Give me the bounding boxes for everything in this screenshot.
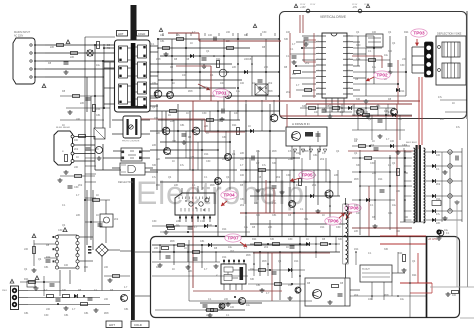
svg-text:100: 100 <box>240 158 245 161</box>
svg-text:L60: L60 <box>84 266 89 269</box>
svg-text:ZD8: ZD8 <box>304 150 309 153</box>
svg-text:DEFLECTION: DEFLECTION <box>118 181 133 184</box>
svg-text:100: 100 <box>240 174 245 177</box>
svg-text:22K: 22K <box>268 226 273 229</box>
svg-text:L60: L60 <box>156 184 161 187</box>
svg-text:22K: 22K <box>260 188 265 191</box>
svg-text:VERTICAL DRIVE: VERTICAL DRIVE <box>320 15 346 19</box>
svg-text:+13V: +13V <box>300 6 306 9</box>
svg-text:1K: 1K <box>96 148 99 151</box>
svg-text:1K: 1K <box>186 112 189 115</box>
svg-text:R24: R24 <box>216 58 221 61</box>
svg-text:1N4: 1N4 <box>378 178 383 181</box>
svg-text:L60: L60 <box>206 314 211 317</box>
svg-text:1K: 1K <box>206 132 209 135</box>
svg-text:TP02: TP02 <box>376 73 388 78</box>
svg-text:22K: 22K <box>154 117 159 120</box>
svg-text:1K: 1K <box>172 82 175 85</box>
svg-text:1K: 1K <box>322 214 325 217</box>
svg-text:R24: R24 <box>232 124 237 127</box>
svg-text:C30: C30 <box>336 226 341 229</box>
svg-text:1K: 1K <box>248 125 251 128</box>
svg-text:1K: 1K <box>172 160 175 163</box>
svg-text:1N4: 1N4 <box>296 152 301 155</box>
svg-text:47u: 47u <box>438 96 443 99</box>
svg-text:1K: 1K <box>452 102 455 105</box>
svg-text:ZD8: ZD8 <box>188 90 193 93</box>
svg-text:Electrohelp: Electrohelp <box>136 175 305 211</box>
svg-text:18: 18 <box>348 59 350 61</box>
svg-text:100: 100 <box>234 112 239 115</box>
svg-text:TP01: TP01 <box>215 91 227 96</box>
svg-text:L60: L60 <box>154 247 159 250</box>
svg-text:L60: L60 <box>402 58 407 61</box>
svg-text:14: 14 <box>348 82 350 84</box>
svg-text:2K2: 2K2 <box>240 204 245 207</box>
svg-text:C30: C30 <box>262 31 267 34</box>
svg-text:100: 100 <box>396 230 401 233</box>
svg-text:100: 100 <box>286 31 291 34</box>
svg-text:HOT: HOT <box>118 32 124 36</box>
svg-text:1N4: 1N4 <box>96 108 101 111</box>
svg-text:L60: L60 <box>104 266 109 269</box>
svg-text:L60: L60 <box>76 118 81 121</box>
svg-text:1N4: 1N4 <box>294 260 299 263</box>
svg-text:L60: L60 <box>292 73 297 76</box>
svg-text:47u: 47u <box>180 164 185 167</box>
svg-text:HOT: HOT <box>109 323 115 327</box>
svg-text:19: 19 <box>348 53 350 55</box>
svg-text:1N4: 1N4 <box>222 228 227 231</box>
svg-text:C30: C30 <box>44 314 49 317</box>
svg-text:22K: 22K <box>354 230 359 233</box>
svg-text:100: 100 <box>384 110 389 113</box>
svg-text:100: 100 <box>220 82 225 85</box>
svg-text:C81: C81 <box>388 212 393 215</box>
svg-text:C81: C81 <box>248 58 253 61</box>
svg-text:1N4: 1N4 <box>356 58 361 61</box>
svg-text:100: 100 <box>64 264 69 267</box>
svg-text:2K2: 2K2 <box>264 246 269 249</box>
svg-text:C81: C81 <box>222 136 227 139</box>
svg-text:100: 100 <box>436 154 441 157</box>
svg-text:1N4: 1N4 <box>400 90 405 93</box>
svg-text:C81: C81 <box>313 154 318 157</box>
svg-text:1K: 1K <box>168 114 171 117</box>
svg-text:C30: C30 <box>254 202 259 205</box>
svg-text:ZD8: ZD8 <box>272 150 277 153</box>
svg-text:330: 330 <box>250 278 255 281</box>
svg-text:22K: 22K <box>70 56 75 59</box>
svg-text:1N4: 1N4 <box>250 268 255 271</box>
svg-text:C30: C30 <box>202 112 207 115</box>
svg-text:10u: 10u <box>252 82 257 85</box>
svg-text:ZD8: ZD8 <box>104 312 109 315</box>
svg-text:10u: 10u <box>384 54 389 57</box>
svg-text:H DRIVE B IN: H DRIVE B IN <box>292 122 310 126</box>
svg-text:330: 330 <box>396 190 401 193</box>
svg-text:C30: C30 <box>370 162 375 165</box>
svg-text:10u: 10u <box>392 204 397 207</box>
svg-text:+B 125V: +B 125V <box>428 238 438 241</box>
svg-text:10u: 10u <box>160 34 165 37</box>
svg-text:2K2: 2K2 <box>230 250 235 253</box>
svg-text:1: 1 <box>318 35 319 37</box>
svg-text:C30: C30 <box>152 220 157 223</box>
svg-text:C81: C81 <box>200 240 205 243</box>
svg-text:22K: 22K <box>172 140 177 143</box>
svg-text:-13V: -13V <box>352 6 357 9</box>
svg-text:22K: 22K <box>240 152 245 155</box>
svg-text:10u: 10u <box>244 226 249 229</box>
svg-text:10u: 10u <box>354 204 359 207</box>
svg-text:10u: 10u <box>400 298 405 301</box>
svg-text:L60: L60 <box>226 31 231 34</box>
svg-text:10: 10 <box>318 88 320 90</box>
svg-text:C81: C81 <box>272 214 277 217</box>
svg-text:22K: 22K <box>372 172 377 175</box>
svg-text:2K2: 2K2 <box>354 294 359 297</box>
svg-text:1N4: 1N4 <box>320 226 325 229</box>
svg-text:H.OUT: H.OUT <box>362 268 370 271</box>
svg-text:22: 22 <box>348 35 350 37</box>
svg-text:MAINS INPUT: MAINS INPUT <box>14 31 31 34</box>
svg-text:1K: 1K <box>156 90 159 93</box>
svg-text:R24: R24 <box>376 105 381 108</box>
svg-text:1K: 1K <box>96 214 99 217</box>
svg-text:C81: C81 <box>240 198 245 201</box>
svg-text:17: 17 <box>348 64 350 66</box>
svg-text:330: 330 <box>256 214 261 217</box>
svg-text:2K2: 2K2 <box>320 158 325 161</box>
svg-text:TP06: TP06 <box>327 219 339 224</box>
svg-text:10u: 10u <box>256 150 261 153</box>
svg-text:47u: 47u <box>288 150 293 153</box>
svg-text:12.5V: 12.5V <box>364 4 370 6</box>
svg-text:COLD: COLD <box>138 32 145 36</box>
svg-text:22K: 22K <box>288 158 293 161</box>
svg-text:1K: 1K <box>204 86 207 89</box>
svg-text:1K: 1K <box>190 42 193 45</box>
svg-text:100: 100 <box>404 216 409 219</box>
svg-text:C81: C81 <box>190 156 195 159</box>
svg-text:COLD: COLD <box>134 323 142 327</box>
svg-text:22K: 22K <box>152 82 157 85</box>
svg-text:TP04: TP04 <box>223 193 235 198</box>
svg-text:22K: 22K <box>156 158 161 161</box>
svg-text:10u: 10u <box>246 304 251 307</box>
svg-text:L60: L60 <box>74 166 79 169</box>
svg-text:1K: 1K <box>222 158 225 161</box>
svg-text:L60: L60 <box>224 298 229 301</box>
svg-text:1N4: 1N4 <box>354 248 359 251</box>
svg-text:22K: 22K <box>156 132 161 135</box>
svg-text:6: 6 <box>318 64 319 66</box>
svg-text:ZD8: ZD8 <box>156 58 161 61</box>
svg-text:DEFLECTION YOKE: DEFLECTION YOKE <box>437 32 462 36</box>
svg-text:C81: C81 <box>304 218 309 221</box>
svg-text:C30: C30 <box>74 186 79 189</box>
svg-text:R24: R24 <box>404 31 409 34</box>
svg-text:47u: 47u <box>176 34 181 37</box>
svg-text:47u: 47u <box>388 111 393 114</box>
svg-text:ZD8: ZD8 <box>210 184 215 187</box>
svg-text:ZD8: ZD8 <box>170 240 175 243</box>
svg-text:330: 330 <box>356 164 361 167</box>
svg-text:C30: C30 <box>288 238 293 241</box>
svg-text:TP03: TP03 <box>413 31 425 36</box>
svg-text:2K2: 2K2 <box>74 148 79 151</box>
svg-text:R24: R24 <box>252 238 257 241</box>
svg-text:330: 330 <box>284 38 289 41</box>
svg-text:8: 8 <box>318 76 319 78</box>
svg-text:9: 9 <box>318 82 319 84</box>
svg-text:C81: C81 <box>180 124 185 127</box>
svg-text:11: 11 <box>318 93 320 95</box>
svg-text:TP05: TP05 <box>301 173 313 178</box>
svg-text:330: 330 <box>338 238 343 241</box>
svg-text:22K: 22K <box>232 66 237 69</box>
svg-text:C30: C30 <box>286 174 291 177</box>
svg-text:B601 B602: B601 B602 <box>406 142 418 144</box>
svg-text:12.5V: 12.5V <box>300 4 306 6</box>
svg-text:20: 20 <box>348 47 350 49</box>
svg-text:AC 220V: AC 220V <box>14 34 24 37</box>
svg-text:C81: C81 <box>24 312 29 315</box>
svg-text:22K: 22K <box>188 270 193 273</box>
svg-text:1K: 1K <box>388 164 391 167</box>
svg-text:47u: 47u <box>296 184 301 187</box>
svg-text:C81: C81 <box>64 314 69 317</box>
svg-text:1K: 1K <box>62 124 65 127</box>
svg-text:ZD8: ZD8 <box>246 254 251 257</box>
svg-text:P801: P801 <box>2 290 8 292</box>
svg-text:2K2: 2K2 <box>305 62 310 65</box>
svg-text:R24: R24 <box>412 274 417 277</box>
svg-text:10u: 10u <box>236 90 241 93</box>
svg-text:330: 330 <box>270 238 275 241</box>
svg-text:1K: 1K <box>76 156 79 159</box>
svg-text:330: 330 <box>356 98 361 101</box>
svg-text:2K2: 2K2 <box>114 218 119 221</box>
svg-text:100: 100 <box>372 31 377 34</box>
svg-text:100: 100 <box>74 139 79 142</box>
svg-text:ZD8: ZD8 <box>268 90 273 93</box>
svg-text:100: 100 <box>240 82 245 85</box>
svg-text:1N4: 1N4 <box>272 202 277 205</box>
svg-text:330: 330 <box>398 118 403 121</box>
svg-text:100: 100 <box>230 306 235 309</box>
svg-text:2K2: 2K2 <box>78 184 83 187</box>
svg-text:10u: 10u <box>228 246 233 249</box>
svg-text:1K: 1K <box>306 238 309 241</box>
svg-text:2: 2 <box>318 41 319 43</box>
svg-text:L60: L60 <box>104 298 109 301</box>
svg-text:1K: 1K <box>372 140 375 143</box>
svg-text:1N4: 1N4 <box>204 153 209 156</box>
svg-text:47u: 47u <box>202 66 207 69</box>
svg-text:10u: 10u <box>96 64 101 67</box>
svg-text:22K: 22K <box>436 222 441 225</box>
svg-text:ZD8: ZD8 <box>384 294 389 297</box>
svg-text:ZD8: ZD8 <box>262 260 267 263</box>
svg-text:22K: 22K <box>152 144 157 147</box>
svg-text:22K: 22K <box>174 184 179 187</box>
svg-text:C81: C81 <box>256 284 261 287</box>
svg-text:2K2: 2K2 <box>268 82 273 85</box>
svg-text:100: 100 <box>208 34 213 37</box>
svg-text:C30: C30 <box>58 229 63 232</box>
svg-text:22K: 22K <box>176 220 181 223</box>
svg-text:L60: L60 <box>46 308 51 311</box>
svg-text:R24: R24 <box>46 256 51 259</box>
svg-text:100: 100 <box>390 140 395 143</box>
svg-text:47u: 47u <box>262 164 267 167</box>
svg-text:TP07: TP07 <box>227 236 239 241</box>
svg-text:1K: 1K <box>176 224 179 227</box>
svg-text:13: 13 <box>348 88 350 90</box>
svg-text:330: 330 <box>302 105 307 108</box>
svg-text:330: 330 <box>388 50 393 53</box>
svg-text:C81: C81 <box>160 40 165 43</box>
svg-text:22K: 22K <box>264 66 269 69</box>
svg-text:L60: L60 <box>24 248 29 251</box>
svg-text:47u: 47u <box>436 213 441 216</box>
svg-text:22K: 22K <box>440 118 445 121</box>
svg-text:22K: 22K <box>50 46 55 49</box>
svg-text:12.5V: 12.5V <box>310 4 316 6</box>
svg-text:2K2: 2K2 <box>312 184 317 187</box>
svg-text:5: 5 <box>318 59 319 61</box>
svg-text:100: 100 <box>314 111 319 114</box>
svg-text:1N4: 1N4 <box>222 256 227 259</box>
svg-text:4: 4 <box>318 53 319 55</box>
svg-text:22K: 22K <box>226 40 231 43</box>
svg-text:1K: 1K <box>96 194 99 197</box>
svg-text:2K2: 2K2 <box>286 91 291 94</box>
svg-text:C81: C81 <box>96 114 101 117</box>
svg-text:1K: 1K <box>286 246 289 249</box>
svg-text:1N4: 1N4 <box>340 111 345 114</box>
svg-text:22K: 22K <box>80 102 85 105</box>
svg-text:ZD8: ZD8 <box>354 178 359 181</box>
svg-text:1K: 1K <box>352 105 355 108</box>
svg-text:100: 100 <box>182 74 187 77</box>
svg-text:21: 21 <box>348 41 350 43</box>
svg-text:330: 330 <box>62 289 67 292</box>
svg-text:330: 330 <box>152 164 157 167</box>
svg-text:C81: C81 <box>84 312 89 315</box>
svg-text:12.5V: 12.5V <box>352 4 358 6</box>
svg-text:12: 12 <box>348 93 350 95</box>
svg-text:C30: C30 <box>400 64 405 67</box>
svg-text:2K2: 2K2 <box>276 176 281 179</box>
svg-text:1K: 1K <box>184 247 187 250</box>
svg-text:22K: 22K <box>76 214 81 217</box>
svg-text:47u: 47u <box>372 66 377 69</box>
svg-text:C30: C30 <box>206 160 211 163</box>
svg-text:C30: C30 <box>356 44 361 47</box>
svg-text:3: 3 <box>318 47 319 49</box>
svg-text:PHOTO COUPLER: PHOTO COUPLER <box>122 141 140 143</box>
svg-text:100: 100 <box>356 212 361 215</box>
svg-text:7: 7 <box>318 70 319 72</box>
svg-text:16: 16 <box>348 70 350 72</box>
svg-text:C81: C81 <box>44 266 49 269</box>
svg-text:15: 15 <box>348 76 350 78</box>
svg-text:100: 100 <box>452 294 457 297</box>
svg-text:R24: R24 <box>398 252 403 255</box>
svg-text:2K2: 2K2 <box>436 183 441 186</box>
svg-text:1K: 1K <box>172 268 175 271</box>
svg-text:100: 100 <box>208 224 213 227</box>
svg-text:330: 330 <box>384 248 389 251</box>
svg-text:C81: C81 <box>124 308 129 311</box>
svg-text:47u: 47u <box>456 126 461 129</box>
svg-text:47u: 47u <box>152 176 157 179</box>
